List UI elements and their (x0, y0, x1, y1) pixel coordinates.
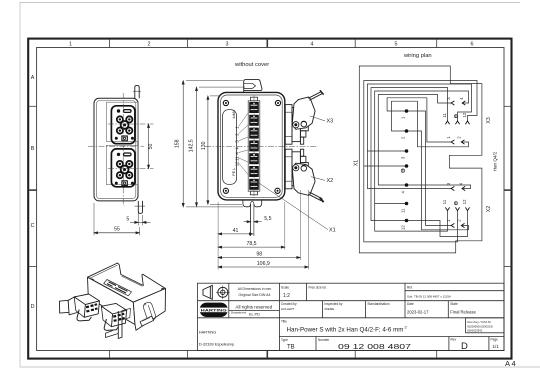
hood 2 terminal marks (113, 313, 125, 322)
wire t11 to X3 p4 (375, 91, 469, 204)
pin X2.4 (462, 186, 465, 190)
terminal number labels (234, 126, 239, 166)
svg-text:All Dimensions in mm: All Dimensions in mm (238, 287, 272, 291)
hood mounting flange (122, 308, 131, 320)
label leaders (239, 113, 248, 175)
svg-text:Created by: Created by (281, 302, 297, 306)
svg-text:11: 11 (234, 156, 239, 161)
hood 2 straps (106, 311, 123, 339)
svg-text:11: 11 (400, 208, 405, 213)
svg-text:B: B (31, 146, 35, 152)
top bevel lines (90, 265, 118, 278)
svg-text:Inspected by: Inspected by (324, 302, 342, 306)
grid ticks left (29, 106, 36, 266)
grid numbers top (69, 41, 474, 47)
projection symbol (203, 285, 230, 299)
svg-text:Sub. TB 09 12 008 4807 x 1115: Sub. TB 09 12 008 4807 x 1115A (407, 294, 451, 298)
junction X1 terminal 2 (405, 129, 409, 133)
corner screws (223, 100, 280, 193)
title block lines (198, 300, 505, 302)
housing top face (88, 263, 166, 302)
svg-text:12: 12 (462, 199, 467, 204)
dim 98 (218, 256, 300, 258)
svg-text:1: 1 (69, 41, 72, 47)
strip end brackets (250, 97, 257, 195)
svg-text:Date: Date (407, 302, 414, 306)
svg-text:12: 12 (234, 161, 239, 166)
svg-text:Title: Title (281, 319, 287, 323)
outer border frame (28, 39, 517, 368)
harting logo (200, 303, 228, 317)
pin X3.12 (465, 121, 469, 124)
ISO VIEW (59, 263, 165, 339)
svg-text:Doc-Key / ICM-Nr.: Doc-Key / ICM-Nr. (467, 320, 492, 324)
CENTER VIEW (174, 62, 335, 269)
svg-text:11: 11 (442, 112, 447, 117)
FRONT VIEW (88, 86, 154, 236)
junction X1 terminal 11 (405, 202, 409, 206)
X3 lever (292, 97, 315, 129)
label X1 (256, 181, 328, 230)
svg-text:55: 55 (114, 227, 120, 233)
top mounting tab (244, 80, 262, 93)
connector hood 1 top (74, 294, 99, 305)
svg-text:Type: Type (281, 338, 288, 342)
svg-text:4: 4 (311, 41, 314, 47)
connector hood 1 front (84, 301, 99, 317)
insert 2 body (111, 149, 134, 187)
wire t1 to X2 q1 (407, 111, 452, 226)
right face (133, 289, 165, 331)
dim 55 (94, 203, 140, 235)
left cable box (59, 300, 69, 313)
svg-text:142,5: 142,5 (189, 139, 195, 152)
TITLE BLOCK (198, 283, 505, 352)
pin X3.11 (445, 121, 449, 124)
X3 connector assembly (285, 90, 323, 144)
title block outline (198, 283, 505, 350)
junction X1 terminal PE (405, 164, 409, 168)
X2 lever (292, 163, 315, 195)
center line horizontal (205, 146, 318, 148)
top mounting tab (133, 86, 141, 99)
svg-text:78,5: 78,5 (246, 241, 256, 247)
svg-text:A: A (31, 75, 35, 81)
svg-text:EL PD: EL PD (249, 313, 260, 317)
dim 106,9 (218, 266, 308, 268)
dim 5,5 (244, 221, 262, 223)
svg-text:Original Size DIN A4: Original Size DIN A4 (239, 293, 271, 297)
grid ticks right (504, 106, 511, 266)
dim 5 (130, 203, 151, 225)
svg-text:106,9: 106,9 (257, 261, 270, 267)
svg-text:5000023542: 5000023542 (467, 329, 482, 333)
wire t4 to X2 q4 (407, 185, 471, 189)
svg-text:All rights reserved: All rights reserved (235, 304, 272, 309)
terminal PE symbol (401, 169, 404, 172)
grid ticks bottom (110, 351, 437, 358)
svg-text:State: State (450, 302, 458, 306)
svg-text:11: 11 (442, 199, 447, 204)
X3 PE pin symbol (454, 115, 457, 118)
wire t2 to X2 q2 (407, 131, 469, 230)
svg-text:A4: A4 (505, 359, 517, 368)
D groove (143, 302, 155, 320)
svg-text:X1: X1 (329, 228, 336, 234)
svg-text:09 12 008 4807: 09 12 008 4807 (338, 342, 411, 351)
svg-text:Rev: Rev (451, 338, 457, 342)
svg-text:130: 130 (201, 141, 207, 150)
wire t3 to X2 q3 (367, 151, 451, 189)
wire t2 to X3 p2 (392, 101, 469, 147)
svg-text:TB: TB (287, 344, 295, 350)
insert 2 mounting rect (106, 145, 138, 184)
left cover plate (223, 110, 237, 185)
svg-text:5: 5 (126, 216, 129, 222)
pin X3.1 (451, 140, 454, 144)
hood 1 side (74, 297, 85, 317)
svg-text:X3: X3 (486, 117, 492, 123)
wire t1 to X3 p1 (387, 98, 451, 142)
wire t12 to X3 p11 (371, 88, 448, 221)
svg-text:2023-02-17: 2023-02-17 (407, 309, 429, 314)
label X2 (311, 177, 325, 181)
svg-text:5: 5 (395, 41, 398, 47)
foot (140, 316, 154, 326)
insert 1 mounting rect (106, 102, 138, 141)
svg-text:98: 98 (256, 252, 262, 258)
hood 1 cable entry (68, 297, 77, 315)
insert 1 body (111, 106, 134, 144)
bottom dims extension lines (218, 190, 308, 270)
grid letters left (31, 75, 35, 310)
svg-text:Free size tol.: Free size tol. (309, 285, 327, 289)
pin X3.PE (455, 121, 459, 124)
dim 78,5 (218, 246, 285, 248)
svg-text:1/1: 1/1 (493, 344, 500, 349)
bottom mounting tab (135, 201, 145, 213)
svg-text:HOLLERT: HOLLERT (281, 307, 295, 311)
label plate (104, 280, 132, 296)
svg-text:C: C (31, 223, 35, 229)
svg-text:Final Release: Final Release (450, 309, 476, 314)
front face (88, 277, 136, 324)
hood 2 lever loop (104, 319, 118, 330)
wire tPE to X2 qPE (364, 166, 458, 242)
junction X1 terminal 1 (405, 109, 409, 113)
svg-text:Standardisation: Standardisation (367, 302, 389, 306)
pin X3.2 (461, 140, 464, 144)
svg-text:wiring plan: wiring plan (403, 53, 432, 59)
wire tPE to X3 p12 (364, 81, 477, 167)
wire t3 to X3 pPE (367, 84, 471, 151)
svg-text:HARTING: HARTING (201, 308, 227, 312)
svg-text:158: 158 (174, 139, 180, 148)
terminal labels (400, 116, 405, 230)
top screws (91, 279, 164, 291)
svg-text:4xM4: 4xM4 (232, 110, 236, 119)
pin X2.2 (461, 223, 464, 227)
svg-text:D: D (461, 341, 468, 352)
pin X2.PE (455, 207, 459, 210)
dim 142,5 (195, 87, 245, 206)
svg-text:3: 3 (226, 41, 229, 47)
connector hood 2 top (101, 303, 126, 314)
center line vertical strip (253, 96, 255, 199)
grid ticks top (110, 40, 437, 48)
junction X1 terminal 4 (405, 183, 409, 187)
svg-text:90209060/U02/002/D: 90209060/U02/002/D (467, 325, 493, 329)
junction X1 terminal 3 (405, 149, 409, 153)
center lines (88, 93, 154, 206)
wire t11 to X2 q11 (375, 204, 448, 232)
label X3 (310, 116, 325, 121)
svg-text:Number: Number (318, 338, 330, 342)
svg-text:50: 50 (148, 144, 154, 150)
svg-text:Ref.: Ref. (407, 285, 413, 289)
svg-text:X3: X3 (327, 119, 334, 125)
X3 pin labels (442, 97, 467, 139)
svg-text:Department: Department (231, 311, 246, 315)
dim 158 (182, 81, 243, 207)
svg-text:X1: X1 (354, 160, 360, 166)
dim 41 (218, 233, 253, 235)
pin X3.3 (451, 101, 454, 105)
svg-text:HARTING: HARTING (199, 330, 216, 335)
svg-text:41: 41 (233, 228, 239, 234)
housing body (94, 98, 138, 201)
svg-text:2: 2 (148, 41, 151, 47)
X2 connector assembly (285, 149, 323, 202)
wire t4 to X3 p3 (378, 95, 451, 186)
hood 2 side (101, 306, 112, 326)
svg-text:PE⏚: PE⏚ (231, 167, 236, 175)
hood 1 terminal marks (86, 303, 98, 312)
svg-text:X2: X2 (486, 206, 492, 212)
X2 PE pin symbol (454, 202, 457, 205)
connector hood 2 front (111, 310, 126, 326)
svg-text:5,5: 5,5 (264, 216, 271, 222)
svg-text:12: 12 (462, 112, 467, 117)
svg-text:D: D (31, 304, 35, 310)
dim 130 (207, 96, 242, 204)
svg-text:1:2: 1:2 (283, 293, 290, 299)
svg-text:WIEME: WIEME (324, 307, 334, 311)
wire t12 to X2 q12 (407, 211, 468, 237)
pin X2.3 (451, 186, 454, 190)
pin X2.11 (445, 207, 449, 210)
boundary outline X1 / Han Q4/2 (359, 66, 482, 253)
WIRING PLAN (354, 53, 498, 253)
X2 pin labels (442, 182, 467, 222)
svg-text:12: 12 (400, 225, 405, 230)
housing body (218, 92, 285, 199)
svg-text:without cover: without cover (234, 62, 269, 68)
pin X3.4 (462, 101, 465, 105)
svg-text:D-32339 Espelkamp: D-32339 Espelkamp (199, 341, 234, 346)
bottom tab with slot (243, 200, 262, 236)
terminal strip X1 outline (248, 101, 260, 191)
svg-text:X2: X2 (327, 178, 334, 184)
hood 1 lever loop (77, 310, 91, 321)
svg-text:Page: Page (491, 338, 499, 342)
svg-text:Scale: Scale (281, 285, 289, 289)
pin X2.12 (465, 207, 469, 210)
svg-text:6: 6 (471, 41, 474, 47)
svg-text:Han-Power S with 2x Han Q4/2-F: Han-Power S with 2x Han Q4/2-F; 4-6 mm (287, 327, 404, 334)
terminal blocks (249, 102, 259, 190)
svg-text:Han Q4/2: Han Q4/2 (492, 151, 497, 171)
junction X1 terminal 12 (405, 219, 409, 223)
dim 50 (147, 124, 149, 169)
pin X2.1 (451, 223, 454, 227)
